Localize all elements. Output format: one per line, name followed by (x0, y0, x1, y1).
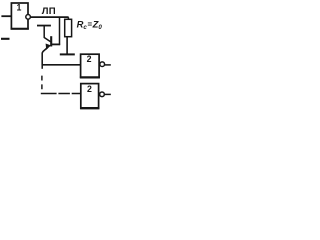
svg-text:2: 2 (87, 54, 92, 64)
svg-text:1: 1 (17, 3, 22, 13)
svg-text:2: 2 (87, 84, 92, 94)
svg-text:ЛП: ЛП (42, 6, 56, 17)
